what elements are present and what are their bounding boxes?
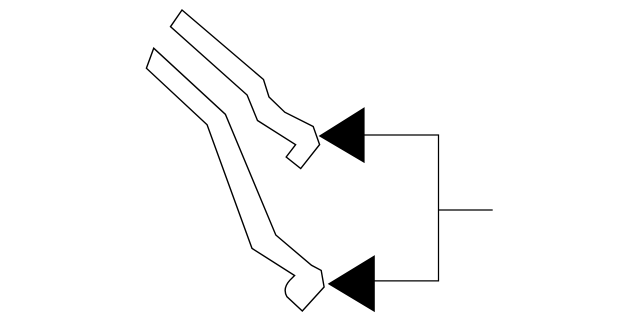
upper arrowhead — [319, 108, 364, 162]
upper molding strip outline — [171, 10, 320, 169]
wire: bracket (upper leader, vertical, lower leader) — [364, 135, 438, 281]
lower arrowhead — [329, 256, 375, 312]
wire: callout stub — [439, 209, 493, 211]
lower molding strip outline — [146, 48, 324, 311]
